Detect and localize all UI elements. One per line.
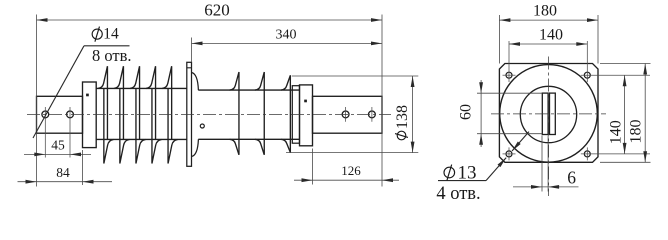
svg-text:140: 140	[539, 26, 563, 43]
svg-text:45: 45	[51, 138, 65, 153]
svg-text:140: 140	[608, 120, 625, 144]
svg-text:180: 180	[533, 3, 557, 20]
svg-text:6: 6	[567, 167, 576, 187]
svg-text:14: 14	[103, 25, 119, 42]
svg-text:126: 126	[341, 163, 361, 178]
svg-text:13: 13	[458, 163, 477, 184]
svg-text:84: 84	[56, 165, 70, 180]
svg-text:60: 60	[458, 104, 475, 120]
svg-text:138: 138	[394, 105, 411, 129]
svg-text:340: 340	[276, 28, 297, 43]
svg-text:4 отв.: 4 отв.	[436, 184, 480, 204]
svg-text:620: 620	[204, 1, 230, 20]
svg-text:180: 180	[628, 120, 645, 144]
svg-text:8 отв.: 8 отв.	[92, 46, 132, 65]
